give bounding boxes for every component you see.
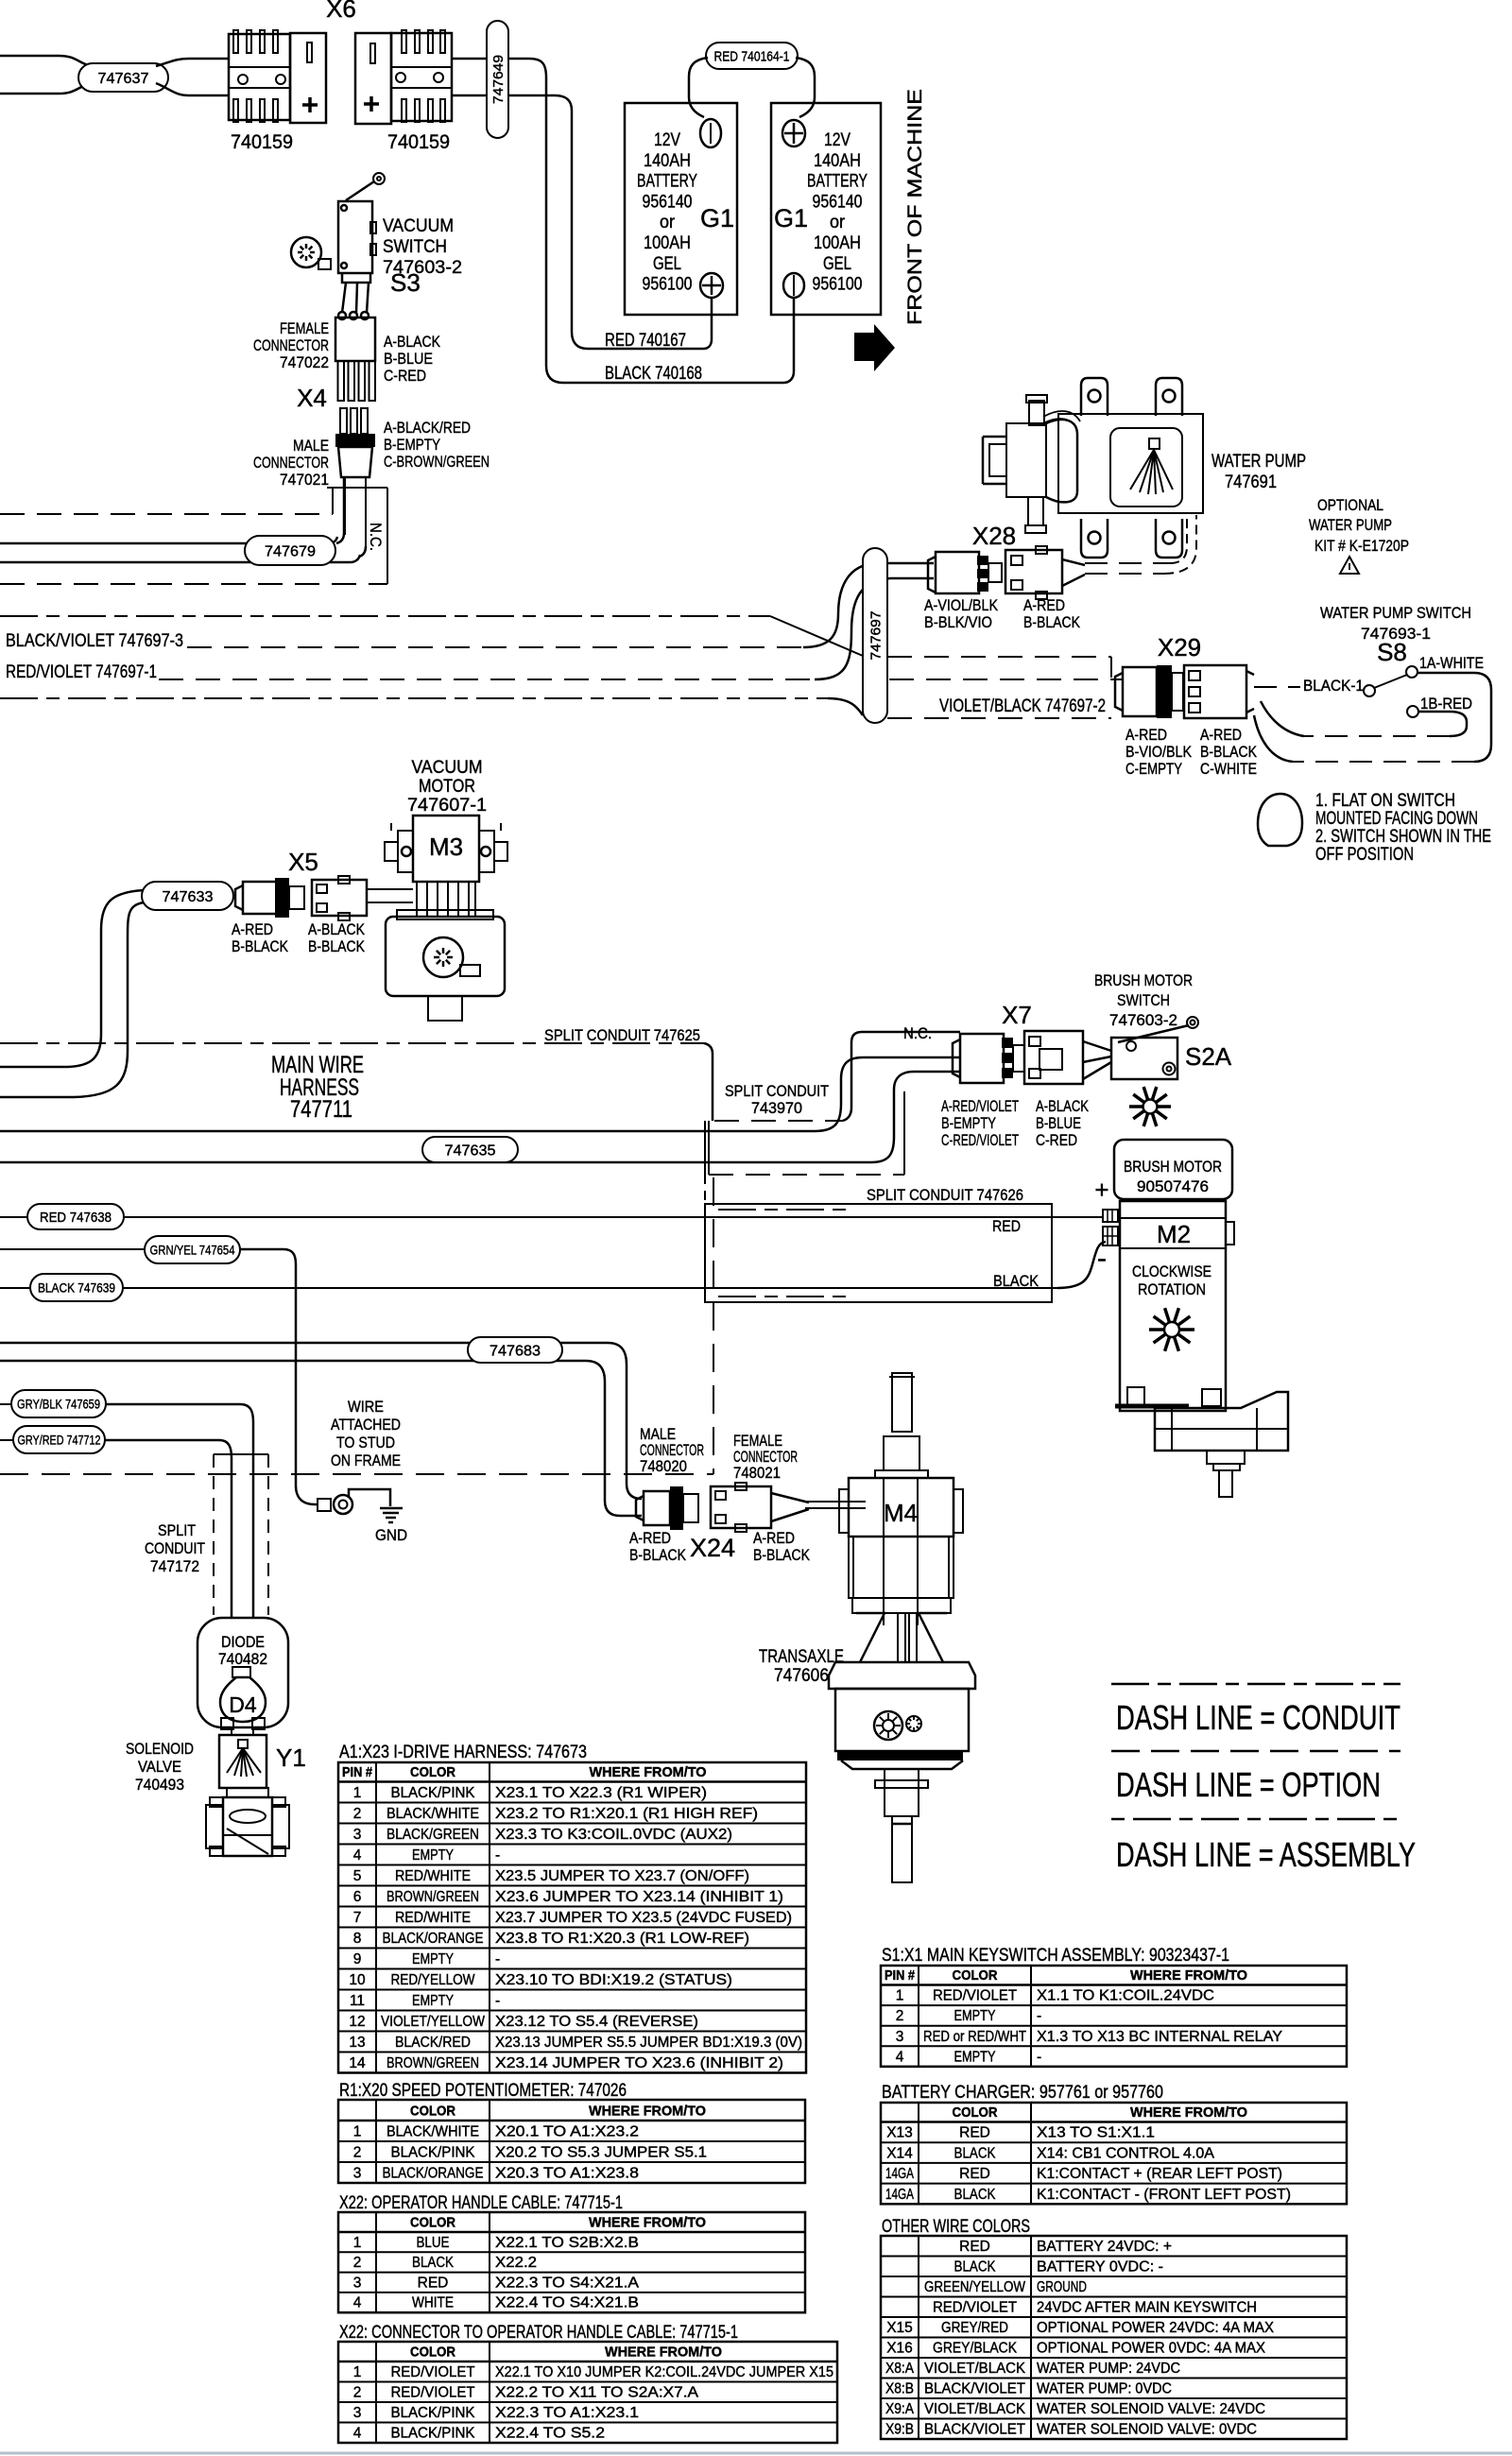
svg-text:OPTIONAL: OPTIONAL <box>1317 496 1383 514</box>
svg-text:OPTIONAL POWER 0VDC: 4A MAX: OPTIONAL POWER 0VDC: 4A MAX <box>1037 2341 1266 2357</box>
svg-text:BLACK/ORANGE: BLACK/ORANGE <box>383 2166 484 2182</box>
svg-text:90507476: 90507476 <box>1137 1177 1209 1195</box>
svg-text:WHERE FROM/TO: WHERE FROM/TO <box>589 2216 706 2231</box>
svg-text:747021: 747021 <box>280 471 329 489</box>
svg-text:C-RED: C-RED <box>384 367 426 385</box>
svg-text:B-BLACK: B-BLACK <box>1023 613 1081 631</box>
svg-text:14GA: 14GA <box>885 2187 914 2203</box>
svg-text:X7: X7 <box>1002 1001 1032 1029</box>
svg-text:X22.1 TO X10 JUMPER K2:COIL.24: X22.1 TO X10 JUMPER K2:COIL.24VDC JUMPER… <box>495 2364 833 2380</box>
svg-text:140AH: 140AH <box>814 151 861 171</box>
svg-text:-: - <box>1037 2049 1041 2065</box>
svg-text:WATER PUMP: 24VDC: WATER PUMP: 24VDC <box>1037 2361 1180 2377</box>
svg-text:747607-1: 747607-1 <box>407 796 487 816</box>
svg-text:-: - <box>1037 2008 1041 2024</box>
svg-text:956140: 956140 <box>643 192 693 212</box>
svg-text:SPLIT CONDUIT 747625: SPLIT CONDUIT 747625 <box>544 1026 700 1044</box>
svg-text:A-BLACK: A-BLACK <box>308 920 366 938</box>
svg-text:X23.14 JUMPER TO X23.6 (INHIBI: X23.14 JUMPER TO X23.6 (INHIBIT 2) <box>495 2055 783 2071</box>
svg-text:X9:A: X9:A <box>885 2401 915 2417</box>
svg-text:748021: 748021 <box>733 1464 781 1482</box>
svg-text:2: 2 <box>353 2145 362 2161</box>
svg-text:ON FRAME: ON FRAME <box>331 1451 401 1469</box>
svg-text:GRN/YEL 747654: GRN/YEL 747654 <box>150 1243 235 1258</box>
svg-text:BLACK/PINK: BLACK/PINK <box>391 2426 476 2442</box>
svg-text:B-BLACK: B-BLACK <box>232 937 289 955</box>
svg-text:BLACK/WHITE: BLACK/WHITE <box>387 1806 479 1822</box>
svg-text:RED: RED <box>959 2166 990 2182</box>
svg-text:12: 12 <box>349 2014 365 2030</box>
svg-text:X29: X29 <box>1158 633 1201 661</box>
svg-text:4: 4 <box>353 1847 362 1863</box>
svg-text:COLOR: COLOR <box>410 2216 455 2231</box>
svg-text:Y1: Y1 <box>276 1743 306 1772</box>
svg-text:CONDUIT: CONDUIT <box>145 1539 205 1557</box>
svg-text:SPLIT: SPLIT <box>158 1521 196 1539</box>
svg-text:VIOLET/BLACK: VIOLET/BLACK <box>924 2361 1026 2377</box>
svg-text:SWITCH: SWITCH <box>383 237 447 257</box>
svg-text:X20.3 TO A1:X23.8: X20.3 TO A1:X23.8 <box>495 2166 639 2182</box>
svg-text:X13: X13 <box>886 2125 913 2141</box>
svg-text:5: 5 <box>353 1868 362 1884</box>
svg-text:11: 11 <box>350 1993 365 2009</box>
svg-text:B-BLACK: B-BLACK <box>753 1546 811 1564</box>
svg-text:747022: 747022 <box>280 353 329 371</box>
svg-text:3: 3 <box>353 2275 362 2291</box>
svg-text:BRUSH MOTOR: BRUSH MOTOR <box>1124 1158 1222 1176</box>
svg-text:3: 3 <box>896 2029 904 2045</box>
svg-text:FRONT OF MACHINE: FRONT OF MACHINE <box>904 89 926 325</box>
svg-text:WATER PUMP: WATER PUMP <box>1211 452 1306 472</box>
svg-text:X23.13 JUMPER S5.5 JUMPER BD1:: X23.13 JUMPER S5.5 JUMPER BD1:X19.3 (0V) <box>495 2035 802 2051</box>
svg-text:ROTATION: ROTATION <box>1138 1280 1206 1298</box>
svg-text:1A-WHITE: 1A-WHITE <box>1419 654 1484 672</box>
svg-text:140AH: 140AH <box>644 151 691 171</box>
svg-text:WATER PUMP: WATER PUMP <box>1309 516 1392 534</box>
svg-text:VALVE: VALVE <box>138 1758 181 1776</box>
svg-text:RED 747638: RED 747638 <box>40 1210 112 1226</box>
svg-text:956140: 956140 <box>813 192 863 212</box>
svg-text:A-VIOL/BLK: A-VIOL/BLK <box>924 596 999 614</box>
svg-text:1. FLAT ON SWITCH: 1. FLAT ON SWITCH <box>1315 791 1455 811</box>
svg-text:N.C.: N.C. <box>367 523 385 551</box>
svg-text:COLOR: COLOR <box>953 1968 998 1984</box>
svg-text:GEL: GEL <box>823 254 851 274</box>
svg-text:B-BLUE: B-BLUE <box>384 350 433 368</box>
svg-text:X22: OPERATOR HANDLE CABLE: 74: X22: OPERATOR HANDLE CABLE: 747715-1 <box>339 2193 623 2213</box>
svg-text:A-BLACK: A-BLACK <box>1036 1097 1090 1115</box>
svg-text:X5: X5 <box>288 848 318 876</box>
svg-text:RED: RED <box>959 2125 990 2141</box>
svg-text:1: 1 <box>353 2124 362 2140</box>
svg-text:2: 2 <box>896 2008 904 2024</box>
svg-text:BRUSH MOTOR: BRUSH MOTOR <box>1094 971 1193 989</box>
svg-text:X23.8 TO R1:X20.3 (R1 LOW-REF): X23.8 TO R1:X20.3 (R1 LOW-REF) <box>495 1931 749 1947</box>
svg-text:WIRE: WIRE <box>348 1398 384 1416</box>
svg-text:X14: X14 <box>886 2145 913 2161</box>
svg-text:RED: RED <box>959 2239 990 2255</box>
svg-text:K1:CONTACT + (REAR LEFT POST): K1:CONTACT + (REAR LEFT POST) <box>1037 2166 1282 2182</box>
svg-text:747683: 747683 <box>490 1343 541 1359</box>
svg-text:740482: 740482 <box>218 1650 267 1668</box>
svg-text:X16: X16 <box>886 2341 913 2357</box>
svg-text:A-BLACK: A-BLACK <box>384 333 441 351</box>
svg-text:K1:CONTACT - (FRONT LEFT POST): K1:CONTACT - (FRONT LEFT POST) <box>1037 2187 1291 2203</box>
svg-text:A-RED: A-RED <box>232 920 273 938</box>
svg-text:GREY/RED: GREY/RED <box>941 2320 1008 2336</box>
svg-text:747691: 747691 <box>1225 472 1277 492</box>
svg-text:RED/VIOLET: RED/VIOLET <box>391 2385 476 2401</box>
svg-text:DASH LINE = OPTION: DASH LINE = OPTION <box>1116 1765 1381 1804</box>
svg-text:WATER SOLENOID VALVE: 24VDC: WATER SOLENOID VALVE: 24VDC <box>1037 2401 1265 2417</box>
svg-text:RED 740164-1: RED 740164-1 <box>714 48 790 64</box>
svg-text:740159: 740159 <box>387 131 450 153</box>
svg-text:OPTIONAL POWER 24VDC: 4A MAX: OPTIONAL POWER 24VDC: 4A MAX <box>1037 2320 1275 2336</box>
svg-text:747172: 747172 <box>150 1557 199 1575</box>
svg-text:X20.2 TO S5.3 JUMPER S5.1: X20.2 TO S5.3 JUMPER S5.1 <box>495 2145 707 2161</box>
svg-text:BLACK: BLACK <box>954 2187 997 2203</box>
svg-text:M2: M2 <box>1157 1220 1191 1248</box>
svg-text:RED/YELLOW: RED/YELLOW <box>391 1972 475 1988</box>
svg-text:X8:B: X8:B <box>885 2381 914 2397</box>
svg-text:RED/WHITE: RED/WHITE <box>395 1910 471 1926</box>
svg-text:EMPTY: EMPTY <box>412 1951 454 1967</box>
svg-text:740493: 740493 <box>135 1776 184 1794</box>
svg-text:A-RED: A-RED <box>1125 726 1167 744</box>
svg-text:A-RED: A-RED <box>1023 596 1065 614</box>
svg-text:BLACK: BLACK <box>412 2255 455 2271</box>
svg-text:RED/WHITE: RED/WHITE <box>395 1868 471 1884</box>
svg-text:X1.3 TO X13 BC INTERNAL RELAY: X1.3 TO X13 BC INTERNAL RELAY <box>1037 2029 1282 2045</box>
svg-text:RED: RED <box>992 1217 1021 1235</box>
svg-text:KIT # K-E1720P: KIT # K-E1720P <box>1314 537 1409 555</box>
svg-text:GROUND: GROUND <box>1037 2279 1087 2295</box>
svg-text:M4: M4 <box>884 1499 918 1527</box>
svg-text:BLACK: BLACK <box>954 2145 997 2161</box>
svg-text:A-RED: A-RED <box>629 1529 671 1547</box>
svg-text:S1:X1 MAIN KEYSWITCH ASSEMBLY:: S1:X1 MAIN KEYSWITCH ASSEMBLY: 90323437-… <box>882 1946 1229 1966</box>
svg-text:VIOLET/BLACK: VIOLET/BLACK <box>924 2401 1026 2417</box>
svg-text:RED/VIOLET: RED/VIOLET <box>391 2364 476 2380</box>
svg-text:CONNECTOR: CONNECTOR <box>253 454 329 472</box>
svg-text:X4: X4 <box>297 384 327 412</box>
svg-text:WHERE FROM/TO: WHERE FROM/TO <box>1130 2105 1247 2121</box>
svg-text:X23.5 JUMPER TO X23.7 (ON/OFF): X23.5 JUMPER TO X23.7 (ON/OFF) <box>495 1868 749 1884</box>
svg-text:X24: X24 <box>690 1534 735 1562</box>
svg-text:SOLENOID: SOLENOID <box>126 1740 194 1758</box>
svg-text:G1: G1 <box>774 204 808 232</box>
svg-text:PIN #: PIN # <box>342 1765 372 1780</box>
svg-text:X20.1 TO A1:X23.2: X20.1 TO A1:X23.2 <box>495 2124 639 2140</box>
svg-text:C-RED/VIOLET: C-RED/VIOLET <box>941 1131 1019 1149</box>
svg-text:BLUE: BLUE <box>417 2235 450 2251</box>
svg-text:S2A: S2A <box>1185 1042 1232 1071</box>
svg-text:1: 1 <box>353 1785 362 1801</box>
svg-text:WHERE FROM/TO: WHERE FROM/TO <box>1130 1968 1247 1984</box>
svg-text:X23.10 TO BDI:X19.2 (STATUS): X23.10 TO BDI:X19.2 (STATUS) <box>495 1972 732 1988</box>
svg-text:BLACK/ORANGE: BLACK/ORANGE <box>383 1931 484 1947</box>
svg-text:BLACK 740168: BLACK 740168 <box>605 364 702 384</box>
svg-text:EMPTY: EMPTY <box>954 2008 996 2024</box>
svg-text:WHERE FROM/TO: WHERE FROM/TO <box>605 2345 722 2361</box>
svg-text:4: 4 <box>896 2049 904 2065</box>
svg-text:BLACK: BLACK <box>954 2259 997 2276</box>
svg-text:B-BLUE: B-BLUE <box>1036 1114 1081 1132</box>
svg-text:747603-2: 747603-2 <box>1109 1011 1177 1029</box>
svg-text:G1: G1 <box>700 204 734 232</box>
svg-text:747649: 747649 <box>490 55 507 104</box>
svg-text:A-RED: A-RED <box>1200 726 1242 744</box>
svg-text:M3: M3 <box>429 833 463 861</box>
svg-text:X8:A: X8:A <box>885 2361 915 2377</box>
svg-text:S3: S3 <box>390 268 421 297</box>
svg-text:X28: X28 <box>972 522 1016 550</box>
svg-text:RED/VIOLET: RED/VIOLET <box>933 2300 1018 2316</box>
svg-text:14: 14 <box>349 2055 366 2071</box>
svg-text:MOTOR: MOTOR <box>419 777 475 797</box>
svg-text:-: - <box>495 1993 500 2009</box>
svg-text:WHERE FROM/TO: WHERE FROM/TO <box>589 2104 706 2120</box>
svg-text:X22.1 TO S2B:X2.B: X22.1 TO S2B:X2.B <box>495 2235 639 2251</box>
svg-text:X23.12 TO S5.4 (REVERSE): X23.12 TO S5.4 (REVERSE) <box>495 2014 698 2030</box>
svg-text:BATTERY 24VDC: +: BATTERY 24VDC: + <box>1037 2239 1172 2255</box>
svg-text:747711: 747711 <box>290 1096 352 1123</box>
svg-text:B-BLACK: B-BLACK <box>308 937 366 955</box>
svg-text:X22.4 TO S4:X21.B: X22.4 TO S4:X21.B <box>495 2295 639 2311</box>
svg-text:747637: 747637 <box>98 71 149 87</box>
svg-text:BLACK/GREEN: BLACK/GREEN <box>387 1827 479 1843</box>
svg-text:X22.4 TO S5.2: X22.4 TO S5.2 <box>495 2426 605 2442</box>
svg-text:X22.3 TO S4:X21.A: X22.3 TO S4:X21.A <box>495 2275 640 2291</box>
svg-text:1B-RED: 1B-RED <box>1420 695 1472 713</box>
svg-text:FEMALE: FEMALE <box>280 319 329 337</box>
svg-text:COLOR: COLOR <box>410 2345 455 2361</box>
svg-text:1: 1 <box>353 2235 362 2251</box>
svg-text:PIN #: PIN # <box>885 1968 915 1984</box>
svg-text:747697: 747697 <box>868 611 884 661</box>
svg-text:BLACK/VIOLET: BLACK/VIOLET <box>924 2422 1026 2438</box>
svg-text:VACUUM: VACUUM <box>383 216 454 236</box>
svg-text:GND: GND <box>375 1526 407 1544</box>
svg-text:9: 9 <box>353 1951 362 1967</box>
svg-text:8: 8 <box>353 1931 362 1947</box>
svg-text:BLACK/VIOLET: BLACK/VIOLET <box>924 2381 1026 2397</box>
svg-text:-: - <box>1097 1243 1107 1274</box>
svg-text:R1:X20 SPEED POTENTIOMETER: 74: R1:X20 SPEED POTENTIOMETER: 747026 <box>339 2081 627 2101</box>
svg-text:BLACK/PINK: BLACK/PINK <box>391 2145 476 2161</box>
svg-text:X13 TO S1:X1.1: X13 TO S1:X1.1 <box>1037 2125 1155 2141</box>
svg-text:X22.3 TO A1:X23.1: X22.3 TO A1:X23.1 <box>495 2405 639 2421</box>
svg-text:S8: S8 <box>1377 638 1407 666</box>
svg-text:EMPTY: EMPTY <box>412 1993 454 2009</box>
svg-text:10: 10 <box>349 1972 366 1988</box>
svg-text:748020: 748020 <box>640 1457 687 1475</box>
svg-text:MALE: MALE <box>293 437 329 455</box>
svg-text:-: - <box>495 1951 500 1967</box>
svg-text:RED: RED <box>418 2275 449 2291</box>
svg-text:COLOR: COLOR <box>410 1765 455 1780</box>
svg-text:B-EMPTY: B-EMPTY <box>384 436 440 454</box>
svg-text:-: - <box>495 1847 500 1863</box>
svg-text:WATER SOLENOID VALVE: 0VDC: WATER SOLENOID VALVE: 0VDC <box>1037 2422 1257 2438</box>
svg-text:CONNECTOR: CONNECTOR <box>253 336 329 354</box>
svg-text:X23.2 TO R1:X20.1 (R1 HIGH REF: X23.2 TO R1:X20.1 (R1 HIGH REF) <box>495 1806 758 1822</box>
svg-text:B-EMPTY: B-EMPTY <box>941 1114 996 1132</box>
svg-text:6: 6 <box>353 1889 362 1905</box>
svg-text:14GA: 14GA <box>885 2166 914 2182</box>
svg-text:TO STUD: TO STUD <box>336 1434 395 1451</box>
svg-text:A-BLACK/RED: A-BLACK/RED <box>384 419 471 437</box>
svg-text:BATTERY 0VDC: -: BATTERY 0VDC: - <box>1037 2259 1163 2276</box>
svg-text:A-RED: A-RED <box>753 1529 795 1547</box>
svg-text:SWITCH: SWITCH <box>1117 991 1170 1009</box>
svg-text:VIOLET/BLACK 747697-2: VIOLET/BLACK 747697-2 <box>939 696 1106 716</box>
svg-text:WHITE: WHITE <box>412 2295 454 2311</box>
svg-text:N.C.: N.C. <box>903 1024 932 1042</box>
svg-text:2: 2 <box>353 2385 362 2401</box>
svg-text:D4: D4 <box>229 1692 257 1717</box>
svg-text:BLACK: BLACK <box>993 1272 1039 1290</box>
svg-text:100AH: 100AH <box>644 233 691 253</box>
svg-text:X22: CONNECTOR TO OPERATOR HAN: X22: CONNECTOR TO OPERATOR HANDLE CABLE:… <box>339 2323 738 2343</box>
svg-text:GRY/BLK 747659: GRY/BLK 747659 <box>17 1397 100 1412</box>
svg-text:X23.3 TO K3:COIL.0VDC (AUX2): X23.3 TO K3:COIL.0VDC (AUX2) <box>495 1827 732 1843</box>
svg-text:RED/VIOLET: RED/VIOLET <box>933 1988 1018 2004</box>
svg-text:GREEN/YELLOW: GREEN/YELLOW <box>924 2279 1025 2295</box>
svg-text:GREY/BLACK: GREY/BLACK <box>933 2341 1018 2357</box>
svg-text:VACUUM: VACUUM <box>412 758 483 778</box>
svg-text:B-BLK/VIO: B-BLK/VIO <box>924 613 992 631</box>
svg-text:BLACK-1: BLACK-1 <box>1303 677 1364 695</box>
svg-text:A-RED/VIOLET: A-RED/VIOLET <box>941 1097 1019 1115</box>
svg-text:12V: 12V <box>654 130 680 150</box>
svg-text:or: or <box>660 213 676 232</box>
svg-text:3: 3 <box>353 2405 362 2421</box>
svg-text:X22.2: X22.2 <box>495 2255 537 2271</box>
svg-text:740159: 740159 <box>231 131 293 153</box>
svg-text:DASH LINE = CONDUIT: DASH LINE = CONDUIT <box>1116 1698 1400 1737</box>
svg-text:+: + <box>1094 1176 1108 1204</box>
svg-text:4: 4 <box>353 2295 362 2311</box>
svg-text:X22.2 TO X11 TO S2A:X7.A: X22.2 TO X11 TO S2A:X7.A <box>495 2385 699 2401</box>
svg-text:WHERE FROM/TO: WHERE FROM/TO <box>590 1765 707 1780</box>
svg-text:747633: 747633 <box>163 889 214 905</box>
svg-text:WATER PUMP: 0VDC: WATER PUMP: 0VDC <box>1037 2381 1172 2397</box>
svg-text:13: 13 <box>349 2035 365 2051</box>
svg-text:or: or <box>830 213 846 232</box>
svg-text:24VDC AFTER MAIN KEYSWITCH: 24VDC AFTER MAIN KEYSWITCH <box>1037 2300 1257 2316</box>
svg-text:X14: CB1 CONTROL 4.0A: X14: CB1 CONTROL 4.0A <box>1037 2145 1215 2161</box>
svg-text:DIODE: DIODE <box>221 1633 265 1651</box>
svg-text:BATTERY: BATTERY <box>637 172 697 192</box>
svg-text:SPLIT CONDUIT: SPLIT CONDUIT <box>725 1082 829 1100</box>
svg-text:743970: 743970 <box>751 1099 802 1117</box>
svg-text:X1.1 TO K1:COIL.24VDC: X1.1 TO K1:COIL.24VDC <box>1037 1988 1214 2004</box>
svg-text:956100: 956100 <box>643 275 693 295</box>
svg-text:BLACK/VIOLET 747697-3: BLACK/VIOLET 747697-3 <box>6 631 183 651</box>
svg-text:OTHER WIRE COLORS: OTHER WIRE COLORS <box>882 2217 1030 2237</box>
svg-text:X23.1 TO X22.3 (R1 WIPER): X23.1 TO X22.3 (R1 WIPER) <box>495 1785 707 1801</box>
svg-text:B-BLACK: B-BLACK <box>629 1546 687 1564</box>
svg-text:12V: 12V <box>824 130 850 150</box>
svg-text:X23.7 JUMPER TO X23.5 (24VDC F: X23.7 JUMPER TO X23.5 (24VDC FUSED) <box>495 1910 792 1926</box>
svg-text:BLACK/RED: BLACK/RED <box>395 2035 471 2051</box>
svg-text:X15: X15 <box>886 2320 913 2336</box>
svg-text:2: 2 <box>353 2255 362 2271</box>
svg-text:X9:B: X9:B <box>885 2422 914 2438</box>
svg-text:C-EMPTY: C-EMPTY <box>1125 760 1182 778</box>
svg-text:OFF POSITION: OFF POSITION <box>1315 845 1414 865</box>
svg-text:VIOLET/YELLOW: VIOLET/YELLOW <box>381 2014 485 2030</box>
svg-text:C-RED: C-RED <box>1036 1131 1077 1149</box>
svg-text:BROWN/GREEN: BROWN/GREEN <box>387 2055 479 2071</box>
svg-text:747606: 747606 <box>774 1666 829 1686</box>
svg-text:B-BLACK: B-BLACK <box>1200 743 1258 761</box>
svg-text:GEL: GEL <box>653 254 681 274</box>
svg-text:747679: 747679 <box>265 543 316 559</box>
svg-text:BLACK 747639: BLACK 747639 <box>38 1280 115 1296</box>
svg-text:RED/VIOLET 747697-1: RED/VIOLET 747697-1 <box>6 662 157 682</box>
svg-text:COLOR: COLOR <box>410 2104 455 2120</box>
svg-text:BATTERY: BATTERY <box>807 172 868 192</box>
svg-text:WATER PUMP SWITCH: WATER PUMP SWITCH <box>1320 604 1471 622</box>
svg-text:BLACK/WHITE: BLACK/WHITE <box>387 2124 479 2140</box>
svg-text:DASH LINE = ASSEMBLY: DASH LINE = ASSEMBLY <box>1116 1835 1416 1874</box>
svg-text:TRANSAXLE: TRANSAXLE <box>759 1647 844 1667</box>
svg-text:7: 7 <box>353 1910 362 1926</box>
svg-text:BLACK/PINK: BLACK/PINK <box>391 2405 476 2421</box>
svg-text:X23.6 JUMPER TO X23.14 (INHIBI: X23.6 JUMPER TO X23.14 (INHIBIT 1) <box>495 1889 783 1905</box>
svg-text:EMPTY: EMPTY <box>412 1847 454 1863</box>
svg-text:RED or RED/WHT: RED or RED/WHT <box>923 2029 1026 2045</box>
svg-text:3: 3 <box>353 1827 362 1843</box>
svg-text:GRY/RED 747712: GRY/RED 747712 <box>18 1433 101 1448</box>
svg-text:BLACK/PINK: BLACK/PINK <box>391 1785 476 1801</box>
svg-text:100AH: 100AH <box>814 233 861 253</box>
svg-text:COLOR: COLOR <box>953 2105 998 2121</box>
svg-text:C-WHITE: C-WHITE <box>1200 760 1257 778</box>
svg-text:A1:X23 I-DRIVE HARNESS: 747673: A1:X23 I-DRIVE HARNESS: 747673 <box>339 1743 587 1762</box>
svg-text:CLOCKWISE: CLOCKWISE <box>1132 1262 1211 1280</box>
svg-text:ATTACHED: ATTACHED <box>331 1416 401 1434</box>
svg-text:B-VIO/BLK: B-VIO/BLK <box>1125 743 1193 761</box>
svg-text:BATTERY CHARGER: 957761 or 957: BATTERY CHARGER: 957761 or 957760 <box>882 2083 1163 2103</box>
svg-text:MOUNTED FACING DOWN: MOUNTED FACING DOWN <box>1315 809 1478 829</box>
svg-text:3: 3 <box>353 2166 362 2182</box>
svg-text:BROWN/GREEN: BROWN/GREEN <box>387 1889 479 1905</box>
svg-text:1: 1 <box>353 2364 362 2380</box>
svg-text:C-BROWN/GREEN: C-BROWN/GREEN <box>384 453 490 471</box>
svg-text:1: 1 <box>896 1988 904 2004</box>
svg-text:SPLIT CONDUIT 747626: SPLIT CONDUIT 747626 <box>867 1186 1023 1204</box>
svg-text:2: 2 <box>353 1806 362 1822</box>
svg-text:2. SWITCH SHOWN IN THE: 2. SWITCH SHOWN IN THE <box>1315 827 1491 847</box>
svg-text:RED 740167: RED 740167 <box>605 331 686 351</box>
svg-text:747635: 747635 <box>445 1142 496 1159</box>
svg-text:EMPTY: EMPTY <box>954 2049 996 2065</box>
svg-text:X6: X6 <box>326 0 356 23</box>
svg-text:4: 4 <box>353 2426 362 2442</box>
svg-text:956100: 956100 <box>813 275 863 295</box>
